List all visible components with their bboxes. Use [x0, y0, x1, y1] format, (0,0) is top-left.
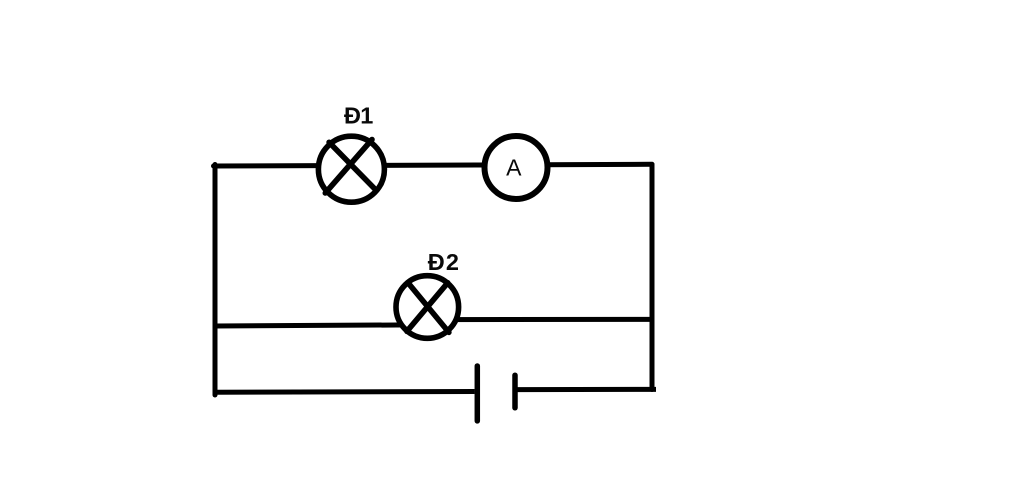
ammeter U1 circle: [485, 136, 548, 199]
wire: right vertical: [650, 165, 655, 390]
wire: bottom left segment (to battery + plate): [215, 389, 475, 395]
svg-text:Đ1: Đ1: [344, 103, 373, 129]
wire: left vertical: [213, 165, 218, 396]
wire: middle branch left segment: [215, 325, 428, 326]
lamp D2 cross stroke NE-SW: [407, 283, 448, 332]
wire: middle branch right segment: [426, 317, 652, 322]
svg-text:Đ2: Đ2: [428, 249, 459, 275]
wire: top horizontal (node from left corner to right corner): [214, 164, 653, 166]
wire: bottom right segment (from battery - plate): [518, 387, 657, 392]
svg-text:A: A: [506, 154, 522, 180]
lamp D1 cross stroke NE-SW: [325, 140, 372, 194]
battery short plate: [512, 375, 518, 408]
battery long plate: [475, 366, 481, 421]
lamp D1 cross stroke NW-SE: [329, 142, 376, 190]
lamp D1 circle: [318, 136, 384, 202]
lamp D2 circle: [396, 276, 459, 339]
lamp D2 cross stroke NW-SE: [408, 283, 449, 333]
